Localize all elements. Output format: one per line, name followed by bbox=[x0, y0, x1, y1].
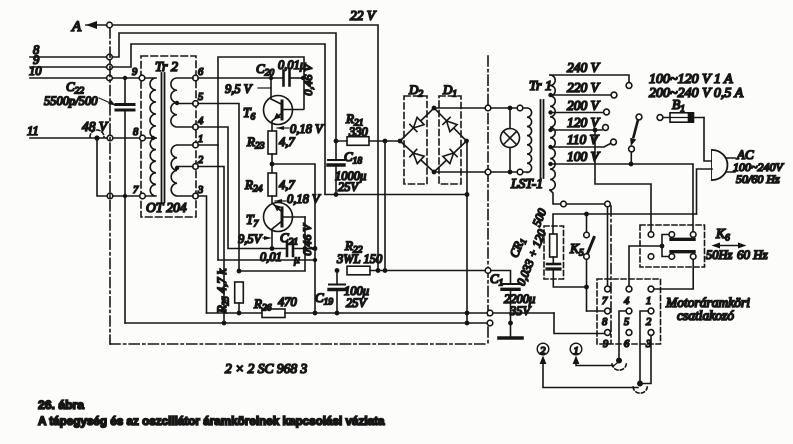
resistor R24 bbox=[244, 173, 295, 196]
svg-text:7: 7 bbox=[602, 296, 608, 307]
svg-text:D2: D2 bbox=[408, 82, 423, 100]
node bridge vertical on rail bbox=[465, 192, 470, 197]
wire motor rail bbox=[553, 214, 697, 234]
svg-text:50/60 Hz: 50/60 Hz bbox=[736, 172, 780, 186]
svg-text:26. ábra: 26. ábra bbox=[38, 398, 84, 412]
svg-text:11: 11 bbox=[27, 124, 39, 138]
node 48V measuring point bbox=[82, 119, 109, 141]
pin 2 bbox=[648, 308, 654, 314]
diode lower-right bbox=[443, 153, 454, 164]
Tr2 pin 8 bbox=[140, 135, 146, 141]
snubber CR1 dashed box bbox=[544, 226, 564, 279]
svg-text:200~240 V 0,5 A: 200~240 V 0,5 A bbox=[649, 86, 744, 101]
wire 100V tap long to K6 feed bbox=[550, 164, 693, 231]
svg-text:1: 1 bbox=[646, 296, 651, 307]
resistor R22 bbox=[336, 238, 383, 275]
pin 6 bbox=[626, 330, 632, 336]
Tr2 pin 1 bbox=[193, 142, 199, 148]
resistor CR1-R bbox=[550, 234, 557, 257]
wire C22 bottom rail down and right bbox=[124, 197, 126, 323]
capacitor C22 bbox=[44, 76, 134, 198]
pin 3 bbox=[648, 330, 654, 336]
wire pin5 down to R25 top bbox=[198, 104, 239, 272]
svg-text:K6: K6 bbox=[715, 226, 730, 244]
wire R26 rail corner down to pin 9 bbox=[554, 313, 604, 334]
svg-text:R25 4,7 k: R25 4,7 k bbox=[215, 269, 231, 315]
pin 7 bbox=[605, 286, 611, 292]
wire between socket circles bbox=[567, 203, 605, 205]
wire junction to feedback node bbox=[272, 164, 315, 313]
svg-text:4: 4 bbox=[624, 296, 630, 307]
svg-text:25V: 25V bbox=[346, 296, 368, 310]
svg-text:Tr 1: Tr 1 bbox=[529, 79, 552, 94]
dash-dot chassis boundary left bbox=[109, 28, 111, 344]
Tr2 secondary winding lower section pins 1-3 bbox=[171, 145, 193, 196]
wire from 48V node down to pin7 line bbox=[97, 140, 107, 196]
svg-text:R23: R23 bbox=[246, 134, 265, 152]
svg-text:R24: R24 bbox=[244, 177, 263, 195]
svg-text:35V: 35V bbox=[509, 304, 532, 318]
wire bridge right vertex down to rails bbox=[466, 141, 468, 323]
svg-text:C1: C1 bbox=[490, 271, 503, 289]
rectifier bridge diamond bbox=[400, 108, 467, 172]
fuse B1 bbox=[657, 97, 704, 122]
wire line 9 to rail then down to C18-bottom rail bbox=[30, 44, 325, 194]
resistor R23 bbox=[246, 131, 295, 154]
node R21 wire meets x385 vertical bbox=[383, 139, 388, 144]
node 200V contact bbox=[604, 109, 610, 115]
transformer Tr1 core bbox=[541, 100, 544, 178]
svg-text:C20: C20 bbox=[256, 61, 274, 79]
wire line 8 to rail then down to R21 node bbox=[30, 33, 336, 138]
measuring point 1 circled bbox=[570, 343, 614, 365]
node 22V rail meets R22 line bbox=[376, 268, 381, 273]
capacitor C19 bbox=[315, 272, 369, 311]
pin 8 bbox=[605, 308, 611, 314]
node bridge top vertex bbox=[432, 106, 437, 111]
node lamp bottom junction bbox=[508, 170, 513, 175]
wire frame bottom link to feedback vertical bbox=[218, 259, 315, 261]
node C20 left junction bbox=[269, 76, 273, 80]
svg-text:A tápegység és az oszcillátor: A tápegység és az oszcillátor áramkörein… bbox=[38, 415, 385, 428]
wire pin3 down to R25 bottom rail bbox=[198, 196, 207, 313]
svg-text:0,18 V: 0,18 V bbox=[287, 192, 321, 206]
node x467 on R26 rail bbox=[465, 311, 470, 316]
box D1 dashed bbox=[439, 96, 461, 184]
Tr2 primary winding upper section bbox=[145, 78, 156, 138]
node y260 junction bbox=[313, 258, 317, 262]
node R23/R24 junction bbox=[270, 162, 275, 167]
wire pin6 to C20 bbox=[198, 77, 282, 79]
svg-text:48 V: 48 V bbox=[82, 119, 109, 134]
node line8 circle bbox=[107, 54, 113, 60]
node lamp top junction bbox=[508, 106, 513, 111]
wire T6 base from C20 bbox=[271, 80, 281, 104]
node 220V contact bbox=[611, 92, 617, 98]
svg-text:9,5 V: 9,5 V bbox=[225, 82, 253, 96]
Tr2 core bbox=[162, 73, 165, 202]
connector AC plug bbox=[712, 147, 784, 186]
svg-text:2: 2 bbox=[646, 317, 652, 328]
wire 200V tap bbox=[550, 112, 603, 114]
node C20 right junction bbox=[301, 76, 305, 80]
svg-text:2 × 2 SC 968 3: 2 × 2 SC 968 3 bbox=[225, 361, 307, 376]
resistor R25 bbox=[215, 269, 243, 316]
svg-text:A: A bbox=[71, 19, 82, 35]
node boundary circle bottom bbox=[485, 169, 491, 175]
svg-text:5: 5 bbox=[198, 92, 203, 103]
transistor T6 bbox=[243, 96, 303, 132]
svg-text:C18: C18 bbox=[344, 149, 362, 167]
node bridge bottom vertex bbox=[432, 170, 437, 175]
switch K5 bbox=[569, 214, 594, 311]
svg-text:LST-1: LST-1 bbox=[510, 176, 543, 191]
svg-text:220 V: 220 V bbox=[567, 80, 601, 95]
Tr2 pin 7 bbox=[140, 193, 146, 199]
svg-text:120 V: 120 V bbox=[567, 115, 601, 130]
node line10 circle bbox=[107, 75, 113, 81]
node boundary circle on R26 rail bbox=[487, 310, 493, 316]
capacitor C20 bbox=[256, 58, 306, 86]
box D2 dashed bbox=[404, 96, 427, 184]
node 240V contact bbox=[626, 83, 632, 89]
transistor T7 bbox=[246, 203, 305, 248]
svg-text:2: 2 bbox=[540, 345, 546, 357]
svg-text:D1: D1 bbox=[442, 82, 457, 100]
wire pin4 to C21 line bbox=[198, 127, 285, 249]
node R21 left junction bbox=[334, 139, 339, 144]
capacitor C1 bbox=[490, 271, 535, 337]
wire 120V branch to K6 bbox=[595, 130, 651, 231]
svg-text:60 Hz: 60 Hz bbox=[737, 247, 768, 262]
svg-text:6: 6 bbox=[624, 339, 630, 350]
svg-text:50Hz: 50Hz bbox=[706, 248, 733, 262]
wire fuse to plug upper bbox=[704, 118, 712, 162]
dash-dot chassis boundary bottom bbox=[110, 343, 488, 345]
node C21 line meets feedback vertical bbox=[313, 246, 318, 251]
node A feedthrough circle bbox=[107, 22, 113, 28]
wire K6 feed to pin 4 bbox=[629, 246, 662, 286]
Tr2 pin 3 bbox=[193, 193, 199, 199]
wire 240V tap bbox=[550, 75, 629, 82]
Tr2 secondary tap to pin 5 bbox=[177, 103, 193, 105]
wire lower rail C22-side bbox=[125, 322, 486, 324]
wire 22V rail from A to right then down to R22 bbox=[112, 25, 378, 270]
node 110V contact bbox=[611, 139, 617, 145]
svg-text:0,01: 0,01 bbox=[260, 250, 282, 264]
wire pin2 down to lower rail bbox=[198, 167, 224, 324]
svg-text:3WL 150: 3WL 150 bbox=[336, 252, 383, 266]
svg-text:K5: K5 bbox=[569, 241, 584, 259]
K6 top contacts bbox=[669, 232, 675, 238]
transformer Tr1 primary winding bbox=[523, 108, 532, 172]
svg-text:3: 3 bbox=[197, 185, 203, 196]
svg-text:7: 7 bbox=[133, 185, 139, 196]
wire R25 bottom to R26 bbox=[207, 303, 263, 313]
Tr2 pin 6 bbox=[193, 75, 199, 81]
svg-text:200 V: 200 V bbox=[567, 98, 601, 113]
wire to Tr2 pin 7 bbox=[113, 195, 140, 197]
svg-text:5: 5 bbox=[624, 317, 629, 328]
earth point 1 bbox=[616, 358, 622, 364]
wire plug lower to motor rail bbox=[697, 169, 713, 214]
svg-text:25V: 25V bbox=[338, 180, 360, 194]
node feedback vertical on rail bbox=[313, 311, 318, 316]
node boundary circle on C1 feed bbox=[485, 268, 491, 274]
wire T6 collector frame: top line and both verticals bbox=[218, 57, 304, 260]
ground chassis bar bbox=[499, 336, 522, 340]
node socket circle Tr1 bottom right bbox=[605, 201, 611, 207]
wire CR1 bottom to K5 bottom bbox=[553, 271, 586, 288]
svg-text:9,5V: 9,5V bbox=[238, 232, 263, 246]
node C21 right junction with T7 collector bbox=[303, 246, 308, 251]
node boundary circle top bbox=[485, 105, 491, 111]
K6 top shorting bar bbox=[671, 238, 694, 241]
svg-text:C21: C21 bbox=[280, 230, 298, 248]
wire Tr1 bottom lead bbox=[550, 190, 560, 204]
node lamp socket circle top bbox=[517, 105, 523, 111]
svg-text:8: 8 bbox=[133, 127, 139, 138]
wire K5 to pin 8 bbox=[587, 310, 605, 312]
svg-text:4: 4 bbox=[198, 116, 204, 127]
node line11 circle on boundary bbox=[107, 135, 113, 141]
node x467 on lower rail bbox=[465, 321, 470, 326]
switch K6 dashed box bbox=[640, 225, 705, 267]
svg-text:240 V: 240 V bbox=[567, 60, 601, 75]
diode upper-left bbox=[413, 117, 424, 128]
svg-text:500: 500 bbox=[529, 207, 549, 229]
Tr2 secondary winding upper section pins 6-4 bbox=[171, 78, 193, 127]
measuring point 2 circled bbox=[537, 343, 638, 387]
node pin2 wire on lower rail bbox=[222, 321, 227, 326]
pin 9 bbox=[605, 330, 611, 336]
node A terminal with arrow bbox=[71, 19, 107, 35]
svg-text:0,46 V: 0,46 V bbox=[300, 223, 314, 256]
svg-text:470: 470 bbox=[278, 295, 298, 309]
svg-text:1: 1 bbox=[198, 134, 203, 145]
wire R22 right to C1 feed line bbox=[370, 270, 485, 272]
connector motor dashed box bbox=[597, 279, 661, 344]
wire R23 to R24 with junction bbox=[271, 154, 273, 173]
Tr2 primary winding lower section bbox=[146, 138, 156, 196]
node socket circle Tr1 bottom left bbox=[561, 201, 567, 207]
wire T7 collector down to R22 line bbox=[304, 217, 306, 270]
svg-text:0,18 V: 0,18 V bbox=[290, 122, 324, 136]
svg-text:330: 330 bbox=[348, 125, 369, 139]
wire R25 top rail to R22 bbox=[239, 270, 305, 272]
svg-text:T6: T6 bbox=[243, 105, 256, 123]
svg-text:C19: C19 bbox=[315, 290, 333, 308]
wire socket to pin 7 bbox=[607, 207, 609, 286]
K6 bottom shorting bar bbox=[671, 250, 694, 253]
capacitor C18 bbox=[328, 143, 366, 194]
wire pin 3 down to earth point 2 bbox=[643, 336, 651, 384]
wire C1 feed from boundary bbox=[491, 271, 511, 284]
Tr2 pin 4 bbox=[193, 124, 199, 130]
wire bridge bottom to lamp bottom and Tr1 bbox=[436, 171, 517, 173]
Tr2 pin 5 bbox=[193, 101, 199, 107]
svg-text:9: 9 bbox=[132, 67, 138, 78]
node feedthrough circle pin7 line bbox=[107, 193, 113, 199]
svg-text:csatlakozó: csatlakozó bbox=[677, 308, 734, 323]
wire R24 to T7 emitter bbox=[272, 196, 282, 212]
diode upper-right bbox=[447, 121, 458, 132]
wire R26 to lower rail junctions bbox=[285, 312, 554, 314]
node line9 circle bbox=[107, 64, 113, 70]
wire pin 2 to earth point 2 bbox=[640, 311, 648, 380]
K6 internal links bbox=[662, 235, 669, 257]
wire bridge top to lamp and Tr1 primary bbox=[436, 107, 517, 109]
svg-text:R26: R26 bbox=[253, 296, 272, 314]
node boundary circle on lower rail bbox=[487, 320, 493, 326]
svg-text:9: 9 bbox=[603, 339, 609, 350]
node C18 on rail bbox=[334, 192, 339, 197]
wire line 11 to Tr2 pin 8 bbox=[30, 137, 140, 139]
node lamp socket circle bottom bbox=[517, 169, 523, 175]
svg-text:100~120 V 1 A: 100~120 V 1 A bbox=[649, 72, 733, 87]
wire x385 vertical R21 node down to R22 line bbox=[384, 141, 386, 270]
svg-text:T7: T7 bbox=[246, 212, 260, 230]
node T7 base junction on C21 line bbox=[270, 246, 275, 251]
capacitor C21 bbox=[260, 230, 315, 266]
svg-text:0,46 V: 0,46 V bbox=[301, 63, 315, 96]
earth point 2 bbox=[637, 381, 643, 387]
wire K6 bottom right to pin 1 bbox=[654, 260, 693, 290]
node K5/CR1 junction bbox=[584, 285, 589, 290]
node pin8 junction dot bbox=[151, 136, 155, 140]
node 120V contact bbox=[603, 125, 609, 131]
wire C18 bottom rail to bridge right vertical bbox=[325, 194, 467, 196]
dash-dot chassis boundary right bbox=[610, 206, 612, 343]
node K6 feed junction bbox=[660, 244, 665, 249]
svg-text:4,7: 4,7 bbox=[279, 178, 295, 192]
node R21 vertical meets R22 line bbox=[383, 268, 388, 273]
K6 arrows bbox=[716, 245, 742, 247]
pin 4 bbox=[626, 286, 632, 292]
wire 120V tap bbox=[550, 129, 602, 131]
svg-text:22 V: 22 V bbox=[350, 8, 377, 23]
transformer Tr2 dashed box bbox=[141, 56, 196, 217]
svg-text:8: 8 bbox=[602, 317, 608, 328]
node bridge right vertex bbox=[464, 139, 469, 144]
svg-text:OT 204: OT 204 bbox=[146, 200, 187, 215]
voltage selector arm bbox=[629, 114, 642, 162]
Tr2 pin 9 bbox=[139, 75, 145, 81]
wire line 10 to Tr2 pin 9 bbox=[30, 77, 139, 79]
node K5 top on rail bbox=[584, 212, 589, 217]
wire pin 5 to earth point 1 bbox=[619, 311, 626, 357]
K6 spare contacts left bbox=[648, 232, 654, 238]
resistor R21 bbox=[336, 111, 400, 145]
svg-text:6: 6 bbox=[198, 67, 204, 78]
node C19 bottom on rail bbox=[335, 311, 340, 316]
Tr2 secondary tap to pin 2 bbox=[177, 166, 193, 168]
pin 5 bbox=[626, 308, 632, 314]
node selector pivot junction on 100V line bbox=[629, 162, 634, 167]
node 120V junction bbox=[593, 128, 598, 133]
node C1 bottom on lower rail bbox=[508, 321, 513, 326]
resistor R26 bbox=[253, 295, 298, 318]
dash-dot chassis boundary middle bbox=[487, 56, 489, 344]
node bridge left vertex bbox=[398, 139, 403, 144]
Tr2 pin 2 bbox=[193, 164, 199, 170]
svg-text:5500p/500: 5500p/500 bbox=[44, 94, 98, 108]
svg-text:10: 10 bbox=[29, 64, 42, 78]
svg-text:4,7: 4,7 bbox=[279, 135, 295, 149]
svg-text:2: 2 bbox=[198, 155, 204, 166]
lamp LST-1 bbox=[501, 110, 544, 191]
wire pin1 to T6 collector frame bbox=[198, 144, 218, 146]
svg-text:1: 1 bbox=[573, 345, 579, 357]
wire 220V tap bbox=[550, 94, 611, 96]
pin 1 bbox=[648, 286, 654, 292]
node R22 left rail C19 junction bbox=[335, 268, 340, 273]
wire 110V tap bbox=[550, 144, 611, 148]
transformer Tr1 secondary winding with taps bbox=[550, 75, 555, 190]
diode lower-left bbox=[413, 153, 424, 164]
K6 bottom contacts bbox=[669, 254, 675, 260]
svg-text:Tr 2: Tr 2 bbox=[155, 60, 178, 75]
capacitor CR1-C bbox=[552, 257, 554, 263]
